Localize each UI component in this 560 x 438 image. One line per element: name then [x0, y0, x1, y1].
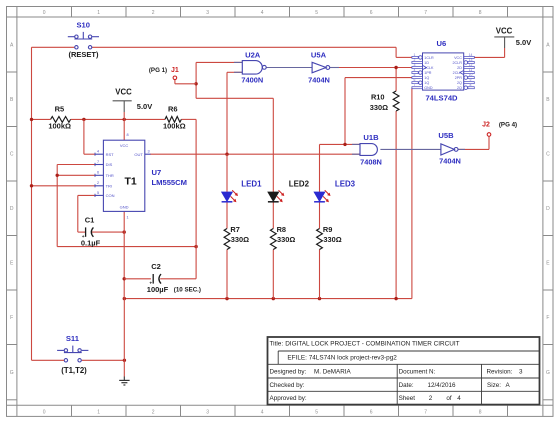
wire CON lead to C1 [78, 194, 95, 196]
wire J1 stub [174, 80, 176, 84]
svg-text:8: 8 [470, 83, 472, 87]
svg-text:1CLR: 1CLR [424, 56, 434, 60]
resistor R9 [317, 225, 342, 249]
wire C1 right lead [92, 231, 124, 233]
svg-text:1: 1 [97, 409, 100, 415]
wire THR lead [57, 174, 95, 176]
svg-text:1CLK: 1CLK [424, 66, 434, 70]
power VCC above 555 [113, 88, 153, 141]
svg-text:Size:: Size: [487, 382, 501, 389]
svg-text:9: 9 [470, 78, 472, 82]
node DIS-THR junction [56, 174, 59, 177]
resistor R5 [48, 105, 71, 131]
svg-text:VCC: VCC [496, 26, 513, 35]
svg-text:GND: GND [120, 205, 129, 210]
wire ground stem [123, 360, 125, 376]
wire ground rail [124, 298, 412, 300]
svg-text:5.0V: 5.0V [516, 38, 531, 47]
svg-text:Title:: Title: [270, 340, 284, 347]
svg-text:0: 0 [43, 409, 46, 415]
wire LED3 column and U1B top input [320, 143, 361, 145]
svg-text:3: 3 [414, 63, 416, 67]
svg-text:R9: R9 [323, 225, 332, 234]
capacitor C2 [147, 262, 201, 294]
svg-text:4: 4 [457, 395, 461, 402]
svg-text:2: 2 [97, 181, 99, 185]
svg-text:7408N: 7408N [360, 158, 382, 167]
svg-text:8: 8 [479, 409, 482, 415]
node TRI junction on left rail [30, 184, 33, 187]
svg-text:7: 7 [424, 409, 427, 415]
svg-text:(10 SEC.): (10 SEC.) [174, 286, 201, 293]
svg-text:12: 12 [469, 63, 473, 67]
svg-text:5: 5 [315, 409, 318, 415]
svg-text:F: F [10, 315, 13, 321]
resistor R8 [270, 225, 295, 249]
switch S11 [57, 334, 88, 362]
svg-text:U7: U7 [152, 168, 162, 177]
wire U6 GND pin down to ground rail [411, 88, 413, 299]
svg-text:10: 10 [469, 73, 473, 77]
svg-text:VCC: VCC [454, 56, 462, 60]
flip-flop U6 74LS74D [423, 53, 464, 90]
svg-text:2Q: 2Q [457, 86, 462, 90]
svg-text:11: 11 [469, 68, 473, 72]
svg-text:100µF: 100µF [147, 285, 169, 294]
pin numbers U6 [414, 53, 473, 87]
wire DIS lead [57, 164, 95, 166]
svg-text:0.1µF: 0.1µF [81, 239, 101, 248]
svg-text:U1B: U1B [363, 133, 379, 142]
svg-text:8: 8 [479, 10, 482, 16]
svg-text:(PG 4): (PG 4) [499, 122, 517, 129]
svg-text:C: C [10, 152, 14, 158]
connector J2 [482, 122, 517, 137]
wire J1 loop bottom to LED2 column [196, 97, 273, 99]
svg-text:LED3: LED3 [335, 180, 356, 189]
LED LED2 [268, 180, 310, 203]
svg-text:4: 4 [97, 150, 99, 154]
svg-text:OUT: OUT [134, 152, 143, 157]
node ground-rail/R9 junction [318, 297, 321, 300]
svg-text:2D: 2D [457, 66, 462, 70]
svg-text:7404N: 7404N [439, 157, 461, 166]
wire R10 bottom to ground rail [395, 111, 397, 299]
svg-text:1: 1 [127, 216, 129, 220]
svg-text:R10: R10 [371, 92, 385, 101]
pins U6 left [412, 56, 427, 89]
svg-text:6: 6 [370, 10, 373, 16]
svg-text:5: 5 [97, 191, 99, 195]
svg-text:DIGITAL LOCK PROJECT - COMBINA: DIGITAL LOCK PROJECT - COMBINATION TIMER… [285, 340, 459, 347]
svg-text:G: G [10, 370, 14, 376]
LED LED3 [314, 180, 356, 203]
svg-text:D: D [546, 206, 550, 212]
node S11/ground junction [123, 359, 126, 362]
svg-text:S10: S10 [76, 21, 90, 30]
svg-text:2Q: 2Q [457, 81, 462, 85]
svg-text:U5B: U5B [438, 131, 454, 140]
svg-text:(RESET): (RESET) [69, 50, 100, 59]
svg-text:1PR: 1PR [424, 71, 432, 75]
svg-text:LM555CM: LM555CM [152, 178, 187, 187]
svg-text:12/4/2016: 12/4/2016 [428, 382, 457, 389]
svg-text:1: 1 [414, 53, 416, 57]
svg-text:R6: R6 [168, 105, 178, 114]
node ground-rail/R8 junction [272, 297, 275, 300]
wire LED2 column [272, 98, 274, 192]
node VCC-rail/RST junction [82, 118, 85, 121]
svg-text:Approved by:: Approved by: [270, 395, 307, 402]
resistor R7 [224, 225, 249, 249]
svg-text:7: 7 [424, 10, 427, 16]
wire S10 left lead [32, 46, 75, 48]
svg-text:LED1: LED1 [241, 180, 262, 189]
gate pin stubs [234, 61, 242, 63]
svg-text:Checked by:: Checked by: [270, 382, 305, 389]
svg-text:100kΩ: 100kΩ [48, 122, 71, 131]
svg-text:2CLR: 2CLR [452, 61, 462, 65]
svg-text:7: 7 [97, 160, 99, 164]
svg-text:100kΩ: 100kΩ [163, 122, 186, 131]
svg-text:0: 0 [43, 10, 46, 16]
wire J1 loop vertical [195, 62, 197, 98]
svg-text:THR: THR [106, 173, 114, 178]
pins U6 right [460, 56, 475, 89]
svg-text:2CLK: 2CLK [453, 71, 463, 75]
svg-text:2: 2 [414, 58, 416, 62]
svg-text:5.0V: 5.0V [137, 102, 152, 111]
svg-text:4: 4 [414, 68, 416, 72]
svg-text:8: 8 [127, 133, 129, 137]
wire left rail from S10 to S11 [31, 47, 33, 360]
title block [268, 337, 540, 405]
svg-text:3: 3 [206, 10, 209, 16]
svg-text:330Ω: 330Ω [323, 235, 341, 244]
wire S11 right lead to ground stem [82, 359, 125, 361]
svg-text:5: 5 [414, 73, 416, 77]
svg-text:6: 6 [414, 78, 416, 82]
ground symbol [119, 377, 129, 386]
resistor R6 [163, 105, 186, 131]
svg-text:2: 2 [429, 395, 433, 402]
svg-text:4: 4 [261, 10, 264, 16]
svg-text:U5A: U5A [311, 50, 327, 59]
svg-text:13: 13 [469, 58, 473, 62]
svg-text:(PG 1): (PG 1) [149, 67, 167, 74]
wire RST vertical [83, 119, 85, 154]
wire LED1 column [226, 154, 228, 192]
power VCC top right [494, 26, 531, 57]
svg-text:LED2: LED2 [289, 180, 310, 189]
op-amp U5A 7404N inverter [308, 50, 330, 84]
node U5A-out/1CLK/R10 junction [394, 66, 397, 69]
wire C2 right lead and vertical to R6 [160, 278, 196, 280]
pin labels U7 [106, 143, 144, 209]
svg-text:TRI: TRI [106, 183, 112, 188]
wire J1 loop top to U2A input A [196, 61, 242, 63]
svg-text:2: 2 [152, 409, 155, 415]
svg-text:R5: R5 [55, 105, 65, 114]
svg-text:Revision:: Revision: [487, 369, 513, 376]
LED LED1 [222, 180, 262, 203]
svg-text:7: 7 [414, 83, 416, 87]
wire DIS/THR to C2 node [57, 246, 196, 248]
svg-text:EFILE: 74LS74N lock project-re: EFILE: 74LS74N lock project-rev3-pg2 [287, 354, 397, 361]
svg-text:7404N: 7404N [308, 76, 330, 85]
svg-text:1D: 1D [424, 61, 429, 65]
svg-text:74LS74D: 74LS74D [425, 93, 458, 102]
wire C2 left lead [124, 278, 151, 280]
node OUT/LED1 junction [225, 153, 228, 156]
wire R10 top vertical [395, 68, 397, 92]
wire U1B output to U5B [380, 148, 441, 150]
svg-text:DIS: DIS [106, 162, 113, 167]
svg-text:4: 4 [261, 409, 264, 415]
svg-text:S11: S11 [66, 334, 80, 343]
node ground-rail/R10 junction [394, 297, 397, 300]
connector J1 [149, 67, 179, 80]
svg-text:CON: CON [106, 193, 115, 198]
svg-text:M. DeMARIA: M. DeMARIA [314, 369, 352, 376]
svg-text:5: 5 [315, 10, 318, 16]
svg-text:3: 3 [206, 409, 209, 415]
wire U2A output to U5A input [266, 67, 312, 69]
capacitor C1 [81, 215, 101, 247]
svg-text:(T1,T2): (T1,T2) [61, 366, 87, 375]
switch S10 [68, 21, 99, 49]
svg-text:GND: GND [424, 86, 433, 90]
svg-text:1Q: 1Q [424, 81, 429, 85]
svg-text:T1: T1 [124, 176, 136, 188]
node VCC-rail/left-rail junction [30, 118, 33, 121]
svg-text:D: D [10, 206, 14, 212]
svg-text:VCC: VCC [115, 88, 132, 97]
wire U2A input B vertical [227, 71, 242, 73]
svg-text:Sheet: Sheet [399, 395, 416, 402]
svg-text:R8: R8 [277, 225, 286, 234]
svg-text:C2: C2 [151, 262, 161, 271]
svg-text:VCC: VCC [120, 143, 129, 148]
node C2 top junction [194, 245, 197, 248]
svg-text:2PR: 2PR [455, 76, 463, 80]
timer U7 LM555CM [95, 140, 151, 211]
node ground-rail/R7 junction [225, 297, 228, 300]
svg-text:1: 1 [97, 10, 100, 16]
svg-text:G: G [546, 370, 550, 376]
svg-text:of: of [446, 395, 452, 402]
op-amp U5B 7404N inverter [438, 131, 460, 166]
wire U5B output to J2 [458, 148, 489, 150]
svg-text:330Ω: 330Ω [277, 235, 295, 244]
node ground-rail/C-chain junction [123, 297, 126, 300]
pin labels U6 [424, 56, 462, 90]
svg-text:3: 3 [519, 369, 523, 376]
svg-text:C1: C1 [85, 215, 95, 224]
svg-text:1Q: 1Q [424, 76, 429, 80]
wire S10 right to U6 pin1 corner [92, 46, 396, 48]
svg-text:6: 6 [370, 409, 373, 415]
svg-text:J1: J1 [171, 67, 179, 74]
wire U6 1Q to U1B top input [345, 77, 412, 79]
svg-text:3: 3 [148, 150, 150, 154]
wire S11 left lead [32, 359, 65, 361]
resistor R10 [370, 91, 399, 112]
svg-text:2: 2 [152, 10, 155, 16]
svg-text:Designed by:: Designed by: [270, 369, 307, 376]
node C2 left junction [123, 277, 126, 280]
node J1 junction [194, 82, 197, 85]
node C1 junction [123, 230, 126, 233]
svg-text:RST: RST [106, 152, 115, 157]
wire U6 pin14 to VCC [474, 56, 504, 58]
svg-text:J2: J2 [482, 122, 490, 129]
svg-text:U2A: U2A [245, 50, 261, 59]
svg-text:6: 6 [97, 171, 99, 175]
pin numbers U7 [97, 133, 150, 219]
svg-text:R7: R7 [230, 225, 239, 234]
wire ground rail to S11 junction [123, 299, 125, 361]
wire 555 OUT rail [150, 153, 360, 155]
wire U5A output to U6 1CLK [330, 67, 412, 69]
svg-text:330Ω: 330Ω [370, 103, 388, 112]
svg-text:F: F [546, 315, 549, 321]
svg-text:U6: U6 [437, 39, 447, 48]
svg-text:14: 14 [469, 53, 473, 57]
wire 555 GND vertical chain [123, 211, 125, 298]
node 1Q/U1B-top junction [343, 143, 346, 146]
svg-text:7400N: 7400N [241, 76, 263, 85]
svg-text:C: C [546, 152, 550, 158]
svg-text:Date:: Date: [399, 382, 414, 389]
svg-text:330Ω: 330Ω [231, 235, 249, 244]
op-amp U2A 7400N NAND gate [241, 50, 266, 84]
wire VCC rail y=119 with R5 R6 [32, 118, 51, 120]
op-amp U1B 7408N AND gate [360, 133, 382, 167]
wire TRI lead [32, 185, 96, 187]
node VCC-rail/VCC-stem junction [123, 118, 126, 121]
svg-text:Document N:: Document N: [399, 369, 436, 376]
